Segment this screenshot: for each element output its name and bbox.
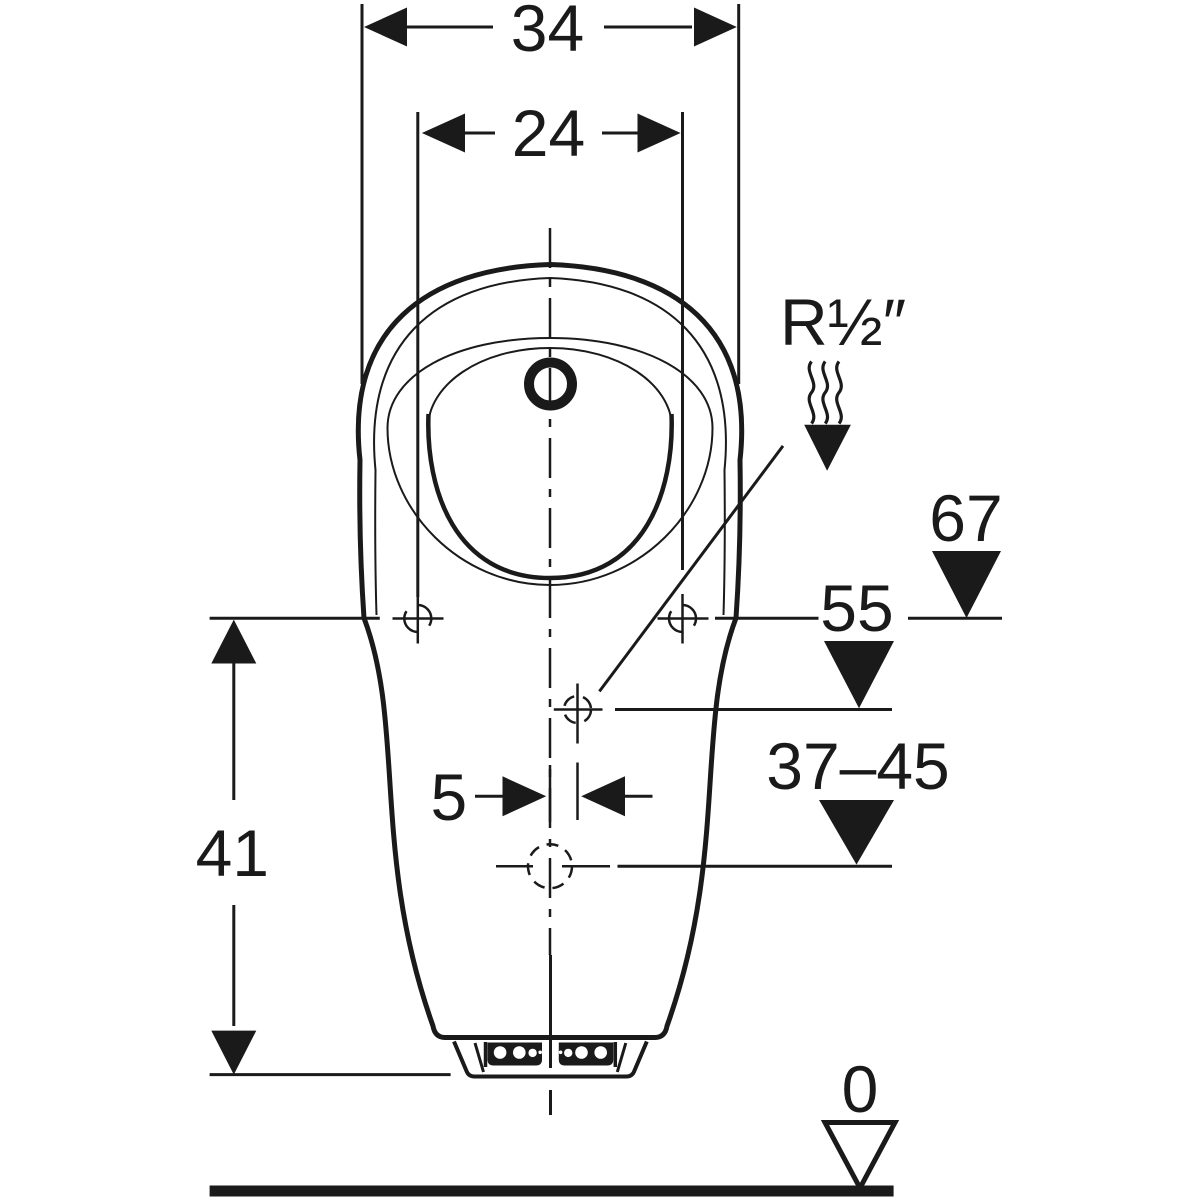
dimension 34: extension lines — [361, 4, 364, 384]
svg-text:0: 0 — [842, 1052, 879, 1126]
left mounting hole — [404, 605, 431, 632]
level line through central hole — [615, 708, 892, 711]
dimension 24: dimension line — [465, 132, 495, 135]
water spreader ring — [529, 363, 572, 406]
svg-text:24: 24 — [512, 96, 585, 170]
outlet inner slant left — [475, 1043, 484, 1072]
outlet bar right — [614, 1042, 618, 1067]
level line through drain — [562, 865, 610, 868]
dimension 34: dimension line — [407, 26, 493, 29]
dimension 41: bottom reference line — [210, 1073, 451, 1076]
outlet skirt trapezoid — [454, 1042, 647, 1077]
outlet inner slant right — [617, 1043, 626, 1072]
dimension 24: right arrow — [638, 114, 681, 153]
R half inch leader line — [599, 446, 783, 692]
central fixing hole — [564, 696, 591, 723]
bowl opening rim (thin egg oval) — [388, 338, 713, 585]
R half inch squiggle 1 — [809, 362, 814, 424]
svg-text:55: 55 — [820, 571, 893, 645]
zero level open triangle — [825, 1123, 895, 1189]
vertical centerline (dash-dot) — [549, 228, 552, 955]
level line 55 (through mounting holes) — [210, 617, 380, 620]
dimension 34: right arrow — [694, 8, 737, 47]
svg-text:67: 67 — [929, 481, 1002, 555]
dimension 34: left arrow — [364, 8, 407, 47]
svg-text:R½″: R½″ — [780, 285, 906, 359]
dimension 41: down arrow — [211, 1031, 256, 1075]
outlet left hole block — [488, 1043, 614, 1066]
drain hole (dashed circle) — [528, 844, 572, 888]
inner bowl thin upper outline — [428, 348, 672, 428]
R half inch squiggle 3 — [837, 362, 842, 424]
svg-text:34: 34 — [511, 0, 584, 65]
dimension 41: vertical line — [232, 664, 235, 801]
R half inch arrow — [804, 425, 851, 471]
R half inch squiggle 2 — [823, 362, 828, 424]
inner bowl thick lower outline — [428, 414, 671, 578]
floor line — [210, 1186, 894, 1197]
svg-text:41: 41 — [196, 816, 269, 890]
outlet bar left — [484, 1042, 488, 1067]
dimension 24: left arrow — [422, 114, 465, 153]
dimension 41: up arrow — [211, 620, 256, 664]
dimension 5: dimension line and arrows — [475, 795, 503, 798]
level flag 37-45 — [819, 800, 894, 865]
urinal inner rim line — [374, 278, 726, 615]
svg-text:37–45: 37–45 — [766, 729, 950, 803]
level flag 55 — [824, 641, 894, 708]
dimension 24: extension lines — [416, 112, 419, 597]
svg-text:5: 5 — [430, 760, 467, 834]
level flag 67 — [932, 551, 1001, 618]
right mounting hole — [669, 605, 696, 632]
urinal outer body outline — [358, 265, 741, 1038]
